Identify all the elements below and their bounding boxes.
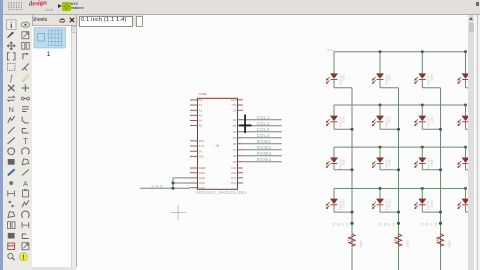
svg-text:D2: D2	[232, 118, 236, 122]
wire LED11 cathode drop	[421, 163, 423, 169]
LED LED7 (row 2, col 3)	[414, 105, 433, 127]
svg-text:LED3MM: LED3MM	[384, 158, 388, 169]
svg-text:GND: GND	[151, 184, 164, 188]
junction ROW2 col3	[420, 103, 423, 106]
right scrollbar thumb	[469, 23, 475, 33]
net label ROW4	[256, 157, 271, 162]
svg-text:LED3MM: LED3MM	[426, 158, 430, 169]
junction ROW4 col2	[378, 187, 381, 190]
svg-text:D13: D13	[231, 181, 236, 185]
svg-text:LED3MM: LED3MM	[426, 74, 430, 85]
LED LED5 (row 2, col 1)	[326, 105, 345, 127]
wire net ROW2	[242, 148, 281, 150]
wire LED16 cathode drop	[464, 205, 466, 212]
coordinate display box	[79, 16, 134, 27]
wire LED12 cathode drop	[464, 163, 466, 169]
wire LED2 cathode jog	[379, 86, 397, 88]
sheets header close x	[69, 17, 75, 23]
svg-text:A2: A2	[198, 108, 202, 112]
svg-text:RST: RST	[198, 139, 204, 143]
wire ROW4 net horizontal	[333, 187, 464, 189]
wire net ROW4	[242, 160, 281, 162]
wire LED13 cathode jog	[333, 211, 351, 213]
svg-text:LED3MM: LED3MM	[338, 158, 342, 169]
svg-text:D12: D12	[231, 176, 236, 180]
svg-text:A5: A5	[198, 123, 202, 127]
svg-text:VIN: VIN	[198, 154, 203, 158]
LED LED14 (row 4, col 2)	[372, 188, 391, 210]
LED LED3 (row 1, col 3)	[414, 51, 433, 84]
sheet thumbnail	[0, 0, 80, 60]
svg-text:ROW3: ROW3	[256, 151, 271, 156]
right margin	[475, 15, 480, 270]
wire net COL2	[242, 124, 281, 126]
wire net COL3	[242, 130, 281, 132]
IC U1 right pins	[230, 98, 242, 185]
svg-text:R2: R2	[392, 237, 396, 241]
junction ROW4 col4	[463, 187, 466, 190]
wire GND pin stub 3	[173, 187, 190, 189]
wire COL3 net vertical	[439, 87, 441, 270]
sheets panel scrollbar	[71, 26, 76, 267]
wire GND to left	[140, 187, 173, 189]
svg-text:3.3V: 3.3V	[198, 144, 204, 148]
watermark green badge	[62, 2, 71, 11]
wire LED3 cathode jog	[422, 86, 440, 88]
junction ROW2 col2	[378, 103, 381, 106]
junction ROW1 col3	[420, 50, 423, 53]
wire LED13 cathode drop	[332, 205, 334, 212]
junction COL3 row3	[438, 168, 441, 171]
LED LED4 (row 1, col 4)	[457, 51, 476, 84]
net label COL1	[256, 115, 269, 120]
left command toolbar background	[3, 15, 33, 270]
net label COL3	[256, 127, 269, 132]
svg-text:f: f	[10, 73, 14, 82]
junction COL1 row3	[350, 168, 353, 171]
svg-text:220R: 220R	[359, 240, 363, 248]
svg-text:AREF: AREF	[198, 166, 206, 170]
right scrollbar track	[468, 15, 474, 270]
wire LED12 cathode jog	[465, 168, 470, 170]
svg-text:N: N	[8, 105, 13, 114]
svg-text:A4: A4	[198, 118, 202, 122]
net label ROW3	[256, 151, 271, 156]
watermark arrow	[58, 4, 62, 8]
junction COL2 label point	[396, 221, 399, 224]
LED LED12 (row 3, col 4)	[457, 147, 476, 169]
wire net ROW3	[242, 154, 281, 156]
svg-text:D8: D8	[232, 154, 236, 158]
IC U1 left pins	[190, 98, 206, 190]
net label COL4	[256, 133, 269, 138]
svg-text:5V: 5V	[198, 149, 201, 153]
svg-text:ARDUINO_SHIELDLABEL: ARDUINO_SHIELDLABEL	[196, 190, 248, 195]
net label ROW1 small	[327, 49, 335, 52]
svg-text:T: T	[23, 137, 28, 146]
sheets header text	[32, 17, 47, 23]
junction ROW3 col3	[420, 145, 423, 148]
sheets header printer icon	[59, 18, 66, 24]
svg-text:D7: D7	[232, 148, 236, 152]
svg-text:TX0: TX0	[231, 103, 236, 107]
junction GND a	[171, 181, 174, 184]
sheets panel bottom strip	[32, 267, 76, 270]
svg-text:D3: D3	[232, 124, 236, 128]
svg-text:ROW1: ROW1	[327, 49, 335, 52]
svg-text:A0: A0	[198, 98, 202, 102]
LED LED8 (row 2, col 4)	[457, 105, 476, 127]
small mark button	[136, 16, 143, 27]
IC U1 value label ARDUINO_SHIELDLABEL	[196, 190, 248, 195]
wire GND bus vertical	[172, 178, 174, 188]
svg-text:LED3MM: LED3MM	[338, 74, 342, 85]
junction ROW3 col2	[378, 145, 381, 148]
junction COL3 row2	[438, 127, 441, 130]
svg-text:GND: GND	[198, 181, 204, 185]
wire GND pin stub 1	[173, 177, 190, 179]
net label ROW2	[256, 145, 271, 150]
svg-text:RX0: RX0	[230, 98, 236, 102]
junction ROW2 col4	[463, 103, 466, 106]
wire LED1 cathode drop	[332, 79, 334, 87]
svg-text:COL3: COL3	[256, 127, 269, 132]
LED LED1 (row 1, col 1)	[326, 51, 345, 84]
sheet origin cross	[170, 205, 185, 220]
sheet number 1	[47, 51, 51, 58]
watermark logo red script	[28, 0, 49, 12]
svg-text:220R: 220R	[405, 240, 409, 248]
LED LED11 (row 3, col 3)	[414, 147, 433, 169]
net label COL2	[256, 121, 269, 126]
svg-text:R1: R1	[346, 237, 350, 241]
junction GND b	[171, 186, 174, 189]
resistor R3 220R	[434, 234, 451, 248]
toolbar separator line	[0, 14, 480, 15]
junction COL3 row4	[438, 210, 441, 213]
svg-text:COL3: COL3	[421, 222, 438, 226]
LED LED6 (row 2, col 2)	[372, 105, 391, 127]
svg-text:!: !	[22, 255, 24, 262]
wire LED6 cathode jog	[379, 128, 397, 130]
svg-text:>NAME: >NAME	[198, 93, 207, 96]
resistor R2 220R	[392, 234, 409, 248]
wire LED5 cathode jog	[333, 128, 351, 130]
svg-text:LED3MM: LED3MM	[384, 74, 388, 85]
svg-text:LED3MM: LED3MM	[426, 199, 430, 210]
junction COL1 row2	[350, 127, 353, 130]
left toolbar icons	[0, 0, 34, 270]
wire LED1 cathode jog	[333, 86, 351, 88]
junction COL2 row3	[396, 168, 399, 171]
junction COL3 label point	[438, 221, 441, 224]
grid button	[7, 2, 24, 12]
sheets panel right border	[75, 15, 78, 268]
watermark text lines	[71, 2, 78, 6]
junction ROW4 col3	[420, 187, 423, 190]
wire COL1 net vertical	[350, 87, 352, 270]
svg-text:D5: D5	[232, 136, 236, 140]
wire net COL4	[242, 136, 281, 138]
wire net ROW1	[242, 142, 281, 144]
wire LED14 cathode jog	[379, 211, 397, 213]
svg-text:LED3MM: LED3MM	[384, 116, 388, 127]
svg-text:LED3MM: LED3MM	[426, 116, 430, 127]
left window border strip	[0, 0, 3, 270]
LED LED16 (row 4, col 4)	[457, 188, 476, 210]
svg-text:D6: D6	[232, 142, 236, 146]
junction COL1 label point	[350, 221, 353, 224]
LED LED9 (row 3, col 1)	[326, 147, 345, 169]
wire LED9 cathode drop	[332, 163, 334, 169]
svg-text:COL2: COL2	[256, 121, 269, 126]
mouse crosshair cursor	[238, 114, 251, 133]
LED LED15 (row 4, col 3)	[414, 188, 433, 210]
svg-text:220R: 220R	[447, 240, 451, 248]
junction COL1 row4	[350, 210, 353, 213]
wire LED15 cathode jog	[422, 211, 440, 213]
sheets panel body	[32, 26, 76, 267]
wire LED14 cathode drop	[378, 205, 380, 212]
wire GND pin stub 2	[173, 182, 190, 184]
wire LED7 cathode jog	[422, 128, 440, 130]
svg-text:ROW4: ROW4	[256, 157, 271, 162]
svg-text:D0: D0	[232, 108, 236, 112]
wire LED5 cathode drop	[332, 122, 334, 129]
svg-text:COL1: COL1	[332, 222, 349, 226]
svg-text:D9: D9	[232, 160, 236, 164]
wire LED6 cathode drop	[378, 122, 380, 129]
top toolbar row background	[0, 0, 480, 14]
IC U1 ARDUINO_SHIELD body	[197, 93, 237, 189]
svg-text:D10: D10	[231, 166, 236, 170]
junction ROW3 col4	[463, 145, 466, 148]
top-right window mark	[476, 2, 479, 6]
svg-text:R3: R3	[434, 237, 438, 241]
LED LED13 (row 4, col 1)	[326, 188, 345, 210]
svg-text:A: A	[23, 181, 28, 188]
resistor R1 220R	[346, 234, 363, 248]
parameter row left background	[3, 15, 143, 26]
net label COL3 bottom	[421, 222, 438, 226]
svg-text:LED3MM: LED3MM	[384, 199, 388, 210]
svg-text:GND: GND	[198, 176, 204, 180]
net label COL2 bottom	[379, 222, 396, 226]
LED LED10 (row 3, col 2)	[372, 147, 391, 169]
junction ROW1 col4	[463, 50, 466, 53]
watermark logo blue sub	[45, 7, 53, 12]
wire LED3 cathode drop	[421, 79, 423, 87]
svg-text:A1: A1	[198, 103, 202, 107]
wire LED11 cathode jog	[422, 168, 440, 170]
junction ROW1 col2	[378, 50, 381, 53]
svg-text:D4: D4	[232, 130, 236, 134]
wire LED9 cathode jog	[333, 168, 351, 170]
wire net COL1	[242, 118, 281, 120]
wire ROW1 net horizontal	[333, 50, 464, 52]
net label COL1 bottom	[332, 222, 349, 226]
wire LED10 cathode jog	[379, 168, 397, 170]
wire LED8 cathode jog	[465, 128, 470, 130]
wire ROW3 net horizontal	[333, 146, 464, 148]
svg-text:LED3MM: LED3MM	[338, 199, 342, 210]
wire LED4 cathode jog	[465, 86, 470, 88]
wire LED8 cathode drop	[464, 122, 466, 129]
wire LED4 cathode drop	[464, 79, 466, 87]
svg-text:ROW1: ROW1	[256, 139, 271, 144]
net label GND	[151, 184, 164, 188]
wire LED10 cathode drop	[378, 163, 380, 169]
wire ROW2 net horizontal	[333, 104, 464, 106]
wire LED15 cathode drop	[421, 205, 423, 212]
svg-text:COL4: COL4	[256, 133, 269, 138]
schematic drawing	[77, 15, 469, 270]
wire LED2 cathode drop	[378, 79, 380, 87]
right scrollbar up arrow	[469, 17, 473, 20]
svg-text:COL2: COL2	[379, 222, 396, 226]
LED LED2 (row 1, col 2)	[372, 51, 391, 84]
svg-text:GND: GND	[198, 171, 204, 175]
svg-text:COL1: COL1	[256, 115, 269, 120]
wire COL2 net vertical	[397, 87, 399, 270]
sheets header bottom border	[32, 24, 77, 27]
svg-text:LED3MM: LED3MM	[338, 116, 342, 127]
junction COL2 row4	[396, 210, 399, 213]
wire LED16 cathode jog	[465, 211, 470, 213]
canvas background	[76, 14, 468, 270]
wire LED7 cathode drop	[421, 122, 423, 129]
svg-text:ROW2: ROW2	[256, 145, 271, 150]
svg-text:D11: D11	[231, 171, 236, 175]
svg-text:A3: A3	[198, 113, 202, 117]
net label ROW1	[256, 139, 271, 144]
junction COL2 row2	[396, 127, 399, 130]
